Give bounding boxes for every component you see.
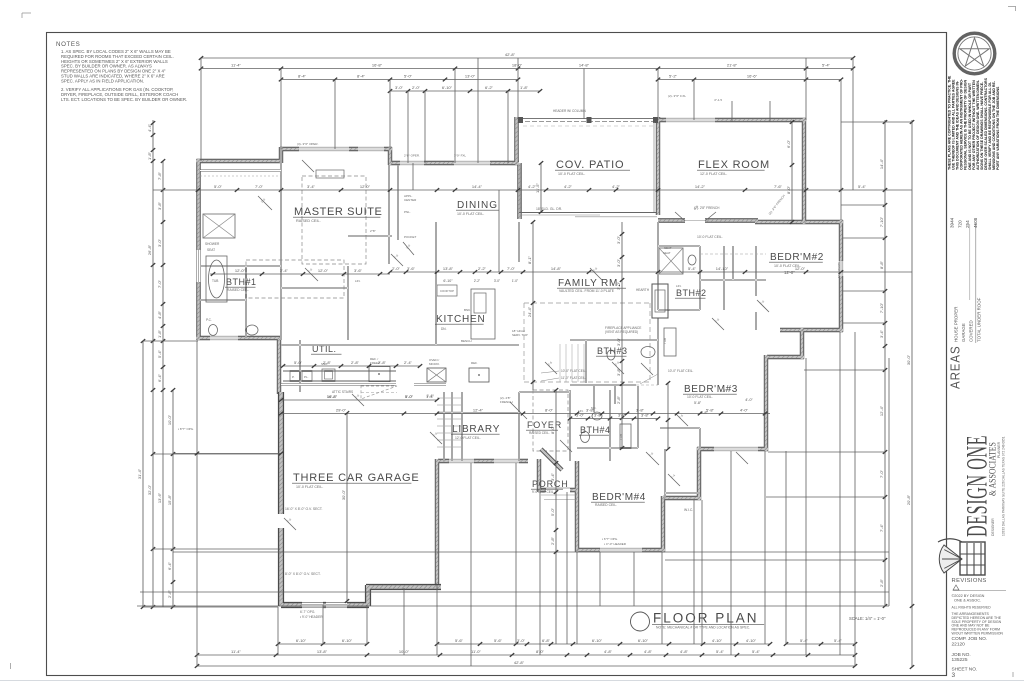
util sink: [322, 369, 335, 381]
svg-text:21'-8": 21'-8": [727, 63, 738, 68]
bth4 toilet: [581, 432, 590, 443]
svg-text:1'-8": 1'-8": [720, 389, 728, 393]
master window seat: [316, 170, 344, 178]
inner dim line y400: [281, 399, 437, 401]
svg-text:2'-2": 2'-2": [474, 279, 480, 283]
svg-text:▪ 8°7° OPG.: ▪ 8°7° OPG.: [178, 427, 194, 431]
svg-text:4'-4": 4'-4": [147, 123, 152, 132]
svg-text:12'-0": 12'-0": [784, 270, 795, 275]
svg-text:FLOOR PLAN: FLOOR PLAN: [653, 611, 759, 626]
bottom dim row 1 mid: [437, 643, 770, 645]
svg-text:3°0° FXL: 3°0° FXL: [454, 154, 466, 158]
foyer vertical dim x556: [555, 390, 557, 644]
window library 2: [494, 458, 519, 463]
patio vertical dim x541: [540, 163, 542, 212]
svg-text:3'-4": 3'-4": [280, 268, 289, 273]
right dim line B: [911, 120, 913, 667]
svg-text:NOTE: MECHANICAL # DR TYPE AN: NOTE: MECHANICAL # DR TYPE AND LOCATION …: [656, 626, 750, 630]
svg-text:1'-8": 1'-8": [520, 85, 529, 90]
svg-text:5'-4": 5'-4": [800, 638, 809, 643]
top extension lines: [201, 58, 853, 272]
svg-text:P.C.: P.C.: [206, 318, 212, 322]
right horizontal connectors: [841, 121, 912, 123]
patio sliding glass doors: [519, 212, 657, 214]
inner dim line y190: [153, 189, 912, 191]
svg-text:4'-8": 4'-8": [157, 310, 162, 319]
window bath wing bottom: [210, 335, 238, 340]
svg-text:▪ 4°-0° HEADER: ▪ 4°-0° HEADER: [604, 542, 627, 546]
svg-text:RAISED CEIL.: RAISED CEIL.: [595, 503, 617, 507]
svg-text:5'-6": 5'-6": [494, 638, 503, 643]
svg-text:5'-4": 5'-4": [157, 349, 162, 358]
inner dim line y413: [281, 413, 770, 415]
svg-text:4'-0": 4'-0": [745, 398, 753, 402]
bottom dim row 3: overall: [197, 665, 855, 667]
svg-text:7'-0": 7'-0": [507, 266, 516, 271]
svg-text:3944: 3944: [950, 217, 955, 228]
svg-text:2'-4": 2'-4": [404, 360, 413, 365]
svg-text:3'-0": 3'-0": [494, 279, 500, 283]
svg-text:5'-0": 5'-0": [294, 360, 303, 365]
kitchen island: [471, 289, 495, 339]
bath1 raised ceiling dashed box: [246, 260, 344, 298]
inner dim line y272: [390, 271, 912, 273]
svg-text:13'-6": 13'-6": [157, 492, 162, 503]
shower bath1: [203, 214, 235, 238]
svg-text:6'-2": 6'-2": [485, 85, 494, 90]
svg-text:(2)- 3°6° F.XL: (2)- 3°6° F.XL: [668, 94, 686, 98]
svg-text:2'-8": 2'-8": [616, 395, 621, 404]
svg-text:TUB: TUB: [663, 338, 667, 344]
family dashed bottom: [524, 381, 650, 383]
svg-text:14'-8": 14'-8": [579, 63, 590, 68]
svg-text:LTS. ECT. LOCATIONS TO BE SPEC: LTS. ECT. LOCATIONS TO BE SPEC. BY BUILD…: [61, 97, 187, 102]
svg-text:11'-4": 11'-4": [231, 649, 241, 654]
svg-text:6'-4": 6'-4": [157, 373, 162, 382]
garage door openings: [302, 601, 323, 609]
svg-text:6'-10": 6'-10": [442, 85, 453, 90]
hall risers: [559, 344, 561, 382]
svg-text:8'-4": 8'-4": [298, 74, 307, 79]
svg-text:16'-8": 16'-8": [372, 63, 383, 68]
svg-text:12'-0": 12'-0": [318, 268, 329, 273]
svg-text:30'-0": 30'-0": [341, 489, 346, 500]
bth4 lav: [592, 412, 602, 420]
svg-text:16'-8": 16'-8": [327, 394, 338, 399]
patio left inner line: [519, 165, 521, 212]
left dim line C: [162, 161, 164, 607]
svg-text:12'-4": 12'-4": [473, 408, 484, 413]
faint bottom scan line: [0, 680, 1024, 682]
floor plan title circle: [631, 612, 650, 631]
flex vertical dim x792: [791, 122, 793, 222]
window bed3 bottom: [714, 446, 758, 451]
garage exterior walls (thick): [281, 392, 441, 606]
svg-text:SHEET NO.: SHEET NO.: [952, 667, 978, 673]
svg-text:ALL RIGHTS RESERVED: ALL RIGHTS RESERVED: [952, 606, 992, 610]
svg-text:3'-8": 3'-8": [594, 413, 603, 418]
svg-text:3'-0": 3'-0": [616, 337, 621, 346]
svg-text:KITCHEN: KITCHEN: [436, 314, 486, 325]
svg-text:BEDR'M#2: BEDR'M#2: [770, 252, 824, 263]
left dim line A: [142, 341, 144, 607]
svg-text:8'-0": 8'-0": [545, 408, 554, 413]
title block divider: [946, 33, 948, 676]
svg-text:18'-0": 18'-0": [512, 63, 523, 68]
svg-text:3'-0": 3'-0": [616, 235, 621, 244]
svg-text:5'-0": 5'-0": [550, 507, 555, 516]
wall hatch ticks: [197, 118, 842, 585]
svg-text:7'-4": 7'-4": [879, 523, 884, 532]
left dim line B: [152, 120, 154, 607]
wic shelves master closet: [200, 175, 281, 177]
svg-text:7'-6": 7'-6": [774, 184, 783, 189]
tub bath1: [206, 256, 227, 302]
svg-text:PNL.: PNL.: [404, 210, 411, 214]
svg-text:MASTER SUITE: MASTER SUITE: [294, 206, 383, 218]
svg-text:5'-6": 5'-6": [455, 638, 464, 643]
svg-text:4'-2": 4'-2": [564, 184, 573, 189]
svg-text:8'-0": 8'-0": [786, 185, 791, 194]
bottom line y552: [173, 551, 889, 553]
top dim row 3 right: [658, 79, 841, 81]
svg-text:(3)- 3°6° OPER.: (3)- 3°6° OPER.: [297, 142, 319, 146]
svg-text:RAISED CEIL.: RAISED CEIL.: [227, 288, 249, 292]
svg-text:FLEX ROOM: FLEX ROOM: [698, 159, 770, 171]
svg-text:4608: 4608: [973, 217, 978, 228]
svg-text:SHOWER: SHOWER: [205, 242, 220, 246]
svg-text:14'-4": 14'-4": [472, 184, 483, 189]
svg-text:12'-4": 12'-4": [879, 405, 884, 416]
window bed2 right: [838, 261, 843, 276]
top dim row 3 left: [281, 79, 518, 81]
svg-text:BEDR'M#4: BEDR'M#4: [592, 492, 646, 503]
svg-text:3'-0": 3'-0": [157, 238, 162, 247]
svg-text:DESIGNER: DESIGNER: [991, 518, 995, 536]
bottom extension lines: [197, 332, 889, 666]
patio ceiling dashes: [523, 125, 654, 127]
svg-text:18' SLD. GL. DR.: 18' SLD. GL. DR.: [536, 207, 562, 211]
svg-text:4'-2": 4'-2": [612, 184, 621, 189]
svg-text:SPEC. APPLY AS IN FIELD APPLI: SPEC. APPLY AS IN FIELD APPLICATION.: [61, 78, 144, 83]
svg-text:VAULTED CEIL. FROM 11'-0 PLATE: VAULTED CEIL. FROM 11'-0 PLATE: [559, 289, 615, 293]
svg-text:COV. PATIO: COV. PATIO: [556, 159, 624, 171]
bottom dim row 1 right: [786, 643, 855, 645]
svg-text:LIN.: LIN.: [355, 279, 361, 283]
svg-text:GARAGE: GARAGE: [961, 323, 966, 342]
svg-text:SEAT: SEAT: [207, 248, 215, 252]
svg-text:7'-10": 7'-10": [879, 216, 884, 227]
svg-text:9'-0 FLAT CEIL.: 9'-0 FLAT CEIL.: [532, 490, 555, 494]
svg-text:4°-1.5: 4°-1.5: [714, 98, 722, 102]
bth2 shower: [659, 248, 683, 274]
svg-text:2'-8": 2'-8": [167, 589, 172, 598]
svg-text:LIN.: LIN.: [665, 308, 671, 312]
svg-text:3'-8": 3'-8": [618, 413, 627, 418]
svg-text:PLANNER: PLANNER: [997, 441, 1001, 458]
window dining 1: [400, 160, 424, 165]
family vaulted ceiling dashes: [524, 302, 650, 304]
garage inner vertical dim: [346, 413, 348, 601]
svg-text:P.: P.: [292, 375, 295, 379]
svg-text:3'-8": 3'-8": [157, 201, 162, 210]
top dim row 4: [390, 90, 540, 92]
svg-text:254: 254: [965, 220, 970, 228]
util washer dryer: [290, 371, 300, 381]
window bed4 bottom: [600, 547, 642, 552]
master raised ceiling dashed box: [302, 176, 366, 264]
svg-text:135225: 135225: [952, 657, 968, 663]
porch front opening: [546, 487, 570, 492]
svg-text:42'-8": 42'-8": [505, 52, 516, 57]
svg-text:8'-4": 8'-4": [357, 74, 366, 79]
svg-text:8'-0": 8'-0": [550, 425, 555, 434]
svg-text:4'-8": 4'-8": [604, 649, 613, 654]
svg-text:BTH#1: BTH#1: [226, 277, 257, 287]
svg-text:5'-8": 5'-8": [694, 401, 702, 405]
svg-text:5'-4": 5'-4": [688, 266, 697, 271]
kitchen cooktop: [437, 285, 457, 296]
foyer raised ceiling dashed box: [533, 390, 568, 451]
bth2 toilet: [688, 255, 696, 265]
svg-text:5'-0": 5'-0": [405, 394, 414, 399]
svg-text:BNK.: BNK.: [464, 308, 471, 312]
porch angled wall: [541, 449, 562, 470]
svg-text:8'-1": 8'-1": [527, 255, 532, 264]
svg-text:14'-2": 14'-2": [695, 184, 706, 189]
svg-text:BTH#3: BTH#3: [597, 346, 628, 356]
attic stairs dashed: [361, 386, 397, 399]
svg-text:3: 3: [952, 672, 956, 679]
svg-text:3'-6": 3'-6": [354, 268, 363, 273]
svg-text:2°8° OPER.: 2°8° OPER.: [404, 154, 420, 158]
svg-text:4'-10": 4'-10": [746, 638, 757, 643]
svg-text:13'-8": 13'-8": [443, 266, 454, 271]
bottom long line at garage base: [137, 605, 889, 607]
svg-text:AREAS: AREAS: [948, 345, 963, 389]
svg-text:3'-6": 3'-6": [407, 266, 416, 271]
svg-text:HEARTH: HEARTH: [636, 288, 650, 292]
svg-text:TUB: TUB: [212, 279, 218, 283]
svg-text:720: 720: [957, 220, 962, 228]
bottom dim row 1 left: [278, 643, 367, 645]
svg-text:▪ 6°7° OPG.: ▪ 6°7° OPG.: [602, 537, 618, 541]
svg-text:10'-0 FLAT CEIL.: 10'-0 FLAT CEIL.: [687, 395, 713, 399]
svg-text:6'-8": 6'-8": [542, 638, 551, 643]
svg-text:TOTAL UNDER ROOF: TOTAL UNDER ROOF: [976, 297, 981, 342]
svg-text:NOTES: NOTES: [56, 41, 80, 48]
svg-text:BENCH: BENCH: [461, 339, 472, 343]
util dims: [283, 365, 420, 367]
svg-text:13'-0": 13'-0": [465, 74, 476, 79]
top dim row 2: [201, 68, 853, 70]
window master-left wall: [196, 250, 201, 282]
svg-text:4'-8": 4'-8": [644, 649, 653, 654]
door leaf diagonals: [258, 160, 769, 530]
svg-text:5'-0": 5'-0": [404, 74, 413, 79]
svg-text:7'-8": 7'-8": [157, 171, 162, 180]
bed2 closet shelves: [700, 253, 766, 255]
svg-text:5'-4": 5'-4": [858, 184, 867, 189]
svg-text:REF.: REF.: [471, 361, 478, 365]
svg-text:2°8°: 2°8°: [370, 229, 377, 233]
svg-text:12'-0 FLAT CEIL.: 12'-0 FLAT CEIL.: [455, 436, 481, 440]
crop mark bottom-left: [10, 663, 12, 669]
svg-text:31'-4": 31'-4": [137, 468, 142, 479]
svg-text:12'-0": 12'-0": [360, 184, 371, 189]
svg-text:FRENCH: FRENCH: [500, 400, 513, 404]
svg-text:10'-0 FLAT CEIL.: 10'-0 FLAT CEIL.: [296, 485, 323, 489]
outer walls (hatched) dark edges: [197, 117, 844, 585]
svg-text:▪ 9'-0" HEADER: ▪ 9'-0" HEADER: [300, 615, 323, 619]
svg-text:3'-0": 3'-0": [616, 281, 621, 290]
bth3 lav: [641, 347, 655, 358]
crop mark top-left: [22, 12, 31, 14]
bth4 tub: [620, 424, 631, 448]
svg-text:22120: 22120: [952, 642, 966, 648]
svg-text:8'-8": 8'-8": [879, 260, 884, 269]
svg-text:6'-10": 6'-10": [443, 279, 453, 283]
svg-text:COOKTOP: COOKTOP: [440, 289, 454, 293]
interior walls dark: [200, 149, 766, 498]
svg-text:COMP. JOB NO.: COMP. JOB NO.: [952, 636, 988, 642]
svg-text:13333 DALLAS PARKWAY SUITE 2: 13333 DALLAS PARKWAY SUITE 226 DALLAS TE…: [1002, 436, 1006, 536]
bth area dims y418: [570, 418, 658, 420]
left horizontal connectors: [143, 340, 198, 342]
svg-text:12'-0": 12'-0": [235, 268, 246, 273]
svg-text:2'-8": 2'-8": [323, 360, 332, 365]
svg-text:32'-0": 32'-0": [147, 484, 152, 495]
flex french door opening: [685, 218, 705, 223]
lav oval bath1: [246, 325, 258, 335]
svg-text:SERV. TOP: SERV. TOP: [512, 333, 528, 337]
svg-text:4'-10": 4'-10": [712, 638, 723, 643]
svg-text:10'-0 FLAT CEIL.: 10'-0 FLAT CEIL.: [697, 235, 723, 239]
crop mark top-right: [1008, 6, 1016, 8]
right dim line A: [884, 120, 886, 606]
svg-text:SEAT: SEAT: [663, 251, 671, 255]
svg-text:FAMILY RM.: FAMILY RM.: [558, 278, 622, 289]
hall vertical dims x622: [621, 222, 623, 448]
toilet bath1: [209, 325, 218, 336]
svg-text:6'-7" OPG.: 6'-7" OPG.: [300, 610, 315, 614]
bth3 toilet: [607, 350, 615, 360]
svg-text:4'-0": 4'-0": [740, 408, 749, 413]
svg-text:ONE & ASSOC.: ONE & ASSOC.: [954, 599, 981, 603]
svg-text:15'-8": 15'-8": [167, 494, 172, 505]
svg-text:DINING: DINING: [457, 200, 498, 211]
svg-text:5'-4": 5'-4": [716, 649, 725, 654]
svg-text:7'-0": 7'-0": [879, 469, 884, 478]
svg-text:W.I.C.: W.I.C.: [684, 508, 693, 512]
svg-text:HOUSE PROPER: HOUSE PROPER: [954, 307, 959, 342]
family fireplace: [652, 284, 668, 318]
svg-text:14'-4": 14'-4": [879, 158, 884, 169]
svg-text:3'-4": 3'-4": [879, 329, 884, 338]
svg-text:5'-4": 5'-4": [822, 63, 831, 68]
porch steps: [541, 494, 577, 496]
svg-text:6'-10": 6'-10": [296, 638, 307, 643]
svg-text:POCKET: POCKET: [404, 235, 417, 239]
svg-text:3'-0": 3'-0": [616, 258, 621, 267]
svg-text:PORT ANY VARIATIONS FROM THE D: PORT ANY VARIATIONS FROM THE DIMENSIONS: [996, 86, 1000, 170]
svg-text:7'-0": 7'-0": [157, 279, 162, 288]
svg-text:3'-0": 3'-0": [395, 85, 404, 90]
arch window logo: [938, 539, 985, 575]
svg-text:14'-8": 14'-8": [551, 266, 562, 271]
svg-text:29'-0": 29'-0": [336, 408, 347, 413]
svg-text:SEAT: SEAT: [664, 246, 672, 250]
svg-text:10'-0" FLAT CEIL.: 10'-0" FLAT CEIL.: [561, 369, 586, 373]
seal circle with star: [954, 33, 995, 74]
bottom line y592: [140, 591, 889, 593]
svg-text:2'-8": 2'-8": [378, 360, 387, 365]
svg-text:5'-4": 5'-4": [752, 649, 761, 654]
svg-text:LIBRARY: LIBRARY: [452, 424, 500, 435]
svg-text:8'-0" X 8'-0" O.V. SECT.: 8'-0" X 8'-0" O.V. SECT.: [285, 572, 321, 576]
svg-text:14'-10": 14'-10": [716, 266, 729, 271]
patio sliding door gap: [540, 160, 650, 165]
bth3 tub: [664, 328, 676, 356]
top dim row 1: overall 42-8: [201, 57, 853, 59]
svg-text:7'-10": 7'-10": [879, 302, 884, 313]
svg-text:2'-8": 2'-8": [351, 360, 360, 365]
svg-text:RAISED CEIL.: RAISED CEIL.: [296, 219, 321, 223]
inner dim line y453: [173, 453, 281, 455]
svg-text:5'-8": 5'-8": [700, 411, 708, 415]
svg-text:6'-4": 6'-4": [167, 561, 172, 570]
svg-text:3'-4": 3'-4": [550, 472, 555, 481]
svg-text:11'-0": 11'-0": [471, 649, 481, 654]
svg-text:26'-8": 26'-8": [147, 244, 152, 255]
family inner vertical dim: [532, 222, 534, 390]
svg-text:2'-8": 2'-8": [550, 536, 555, 545]
svg-text:PL.: PL.: [304, 375, 309, 379]
svg-text:24'-4": 24'-4": [527, 306, 532, 317]
svg-text:20'-8": 20'-8": [906, 494, 911, 505]
garage side door gap: [277, 514, 285, 528]
svg-text:TRANSOMS: TRANSOMS: [837, 262, 841, 278]
svg-text:2'-8": 2'-8": [879, 578, 884, 587]
interior walls core: [200, 149, 766, 498]
svg-text:1'-8": 1'-8": [147, 151, 152, 160]
patio header with columns: [518, 118, 658, 120]
svg-text:3'-4": 3'-4": [307, 184, 316, 189]
svg-text:6'-0": 6'-0": [786, 139, 791, 148]
svg-text:12'-0": 12'-0": [795, 266, 806, 271]
crop mark bottom-right: [1012, 672, 1014, 677]
svg-text:2'-2": 2'-2": [478, 266, 487, 271]
svg-text:7'-0": 7'-0": [255, 184, 264, 189]
svg-text:3'-8": 3'-8": [616, 367, 621, 376]
svg-text:COVERED: COVERED: [969, 320, 974, 342]
window library 1: [449, 458, 474, 463]
svg-text:RAISED CEIL.: RAISED CEIL.: [529, 431, 550, 435]
svg-text:6'-10": 6'-10": [638, 638, 649, 643]
stair treads: [437, 397, 462, 399]
svg-text:42'-8": 42'-8": [514, 660, 525, 665]
bottom dim row 2: [197, 654, 855, 656]
svg-text:5'-0": 5'-0": [214, 184, 223, 189]
window dining 2: [454, 160, 490, 165]
svg-text:SCALE: 1/4″ = 1′-0″: SCALE: 1/4″ = 1′-0″: [849, 616, 886, 621]
svg-text:11'-4": 11'-4": [231, 63, 241, 68]
svg-text:3'-0": 3'-0": [517, 638, 526, 643]
window flex: [666, 117, 715, 122]
window master 2: [358, 146, 384, 151]
outer walls light core: [197, 117, 844, 585]
svg-text:3'-0": 3'-0": [576, 413, 585, 418]
